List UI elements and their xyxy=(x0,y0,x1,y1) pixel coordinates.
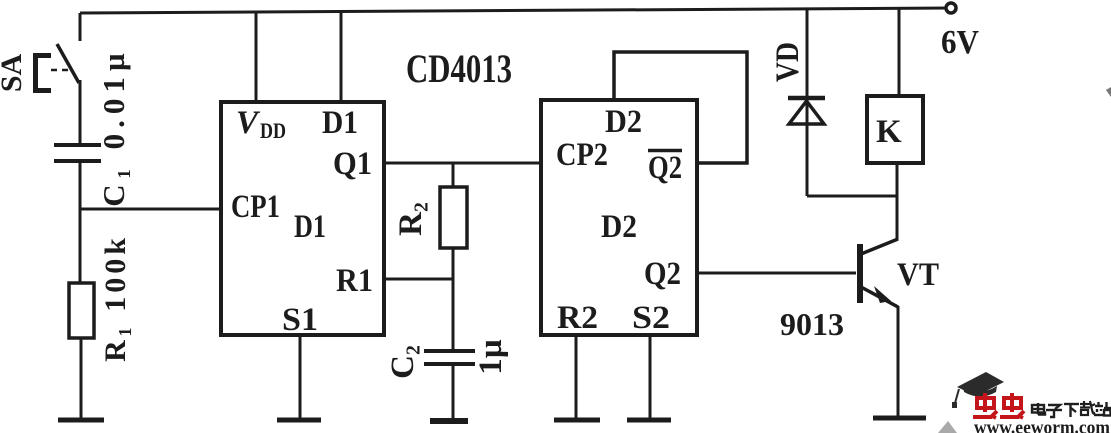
watermark red logo glyph 2 xyxy=(1000,393,1024,418)
wire top supply rail xyxy=(80,8,952,13)
pin label D2 (top) xyxy=(605,104,642,140)
pin label D1 (top) xyxy=(322,105,358,141)
svg-text:D2: D2 xyxy=(601,209,637,245)
svg-text:R₂: R₂ xyxy=(393,202,429,236)
ground (R1) xyxy=(58,418,104,423)
watermark text zi xyxy=(1046,405,1062,417)
pin label S2 xyxy=(632,300,670,336)
svg-text:www.eeworm.com: www.eeworm.com xyxy=(974,419,1111,433)
svg-text:DD: DD xyxy=(260,118,286,143)
wire Q2 to transistor base xyxy=(697,272,856,275)
label D2 (device) xyxy=(601,209,637,245)
watermark text dian xyxy=(1032,403,1045,415)
svg-text:Q1: Q1 xyxy=(333,146,372,182)
label D1 (device) xyxy=(294,209,326,245)
wire node to CP1 xyxy=(79,208,221,211)
svg-text:9013: 9013 xyxy=(780,306,844,342)
wire D1 pin drop xyxy=(340,11,343,103)
wire C1 to R1 xyxy=(79,161,82,283)
watermark text xia xyxy=(1064,404,1079,417)
capacitor C1 xyxy=(54,47,131,207)
pin label VDD xyxy=(236,105,286,143)
ground (R2 pin) xyxy=(554,418,600,423)
ground (emitter) xyxy=(873,416,926,421)
wire K drop from rail xyxy=(898,8,901,96)
transistor VT 9013 xyxy=(780,239,939,342)
switch SA xyxy=(0,44,79,92)
svg-text:1µ: 1µ xyxy=(473,339,509,375)
IC U2 D2 flip-flop box xyxy=(541,100,697,335)
wire C2 to ground xyxy=(452,364,455,420)
watermark text zhan xyxy=(1094,402,1111,416)
ground (C2) xyxy=(430,418,468,424)
wire S2 pin to ground xyxy=(649,335,652,419)
wire D2 to Q2-bar feedback loop xyxy=(614,52,747,163)
wire VD drop from rail xyxy=(806,9,809,196)
svg-text:C₁ 0.01µ: C₁ 0.01µ xyxy=(96,47,131,207)
svg-text:D1: D1 xyxy=(294,209,326,245)
watermark text zai xyxy=(1080,401,1096,415)
ground (S1) xyxy=(277,418,321,423)
watermark graduation cap xyxy=(952,372,1004,408)
svg-text:R1: R1 xyxy=(336,263,373,299)
wire Q1 to CP2 xyxy=(384,162,541,165)
ground (S2 pin) xyxy=(627,418,671,423)
wire VDD drop xyxy=(255,11,258,103)
watermark url xyxy=(974,419,1111,433)
svg-text:CP2: CP2 xyxy=(556,137,608,173)
svg-text:C₂: C₂ xyxy=(385,345,421,379)
wire VD-K bottom link xyxy=(807,195,897,198)
svg-text:R₁ 100k: R₁ 100k xyxy=(99,234,132,362)
wire R1 pin to R2 node xyxy=(384,278,453,281)
svg-text:D2: D2 xyxy=(605,104,642,140)
wire emitter to ground xyxy=(897,306,900,417)
resistor R1 100k xyxy=(69,234,132,362)
pin label Q2-bar xyxy=(648,150,682,186)
svg-text:V: V xyxy=(236,105,261,141)
pin label Q2 xyxy=(644,256,681,292)
node 6V terminal xyxy=(941,3,979,61)
IC U1 D1 flip-flop box xyxy=(221,102,384,335)
wire S1 to ground xyxy=(299,335,302,419)
svg-text:S1: S1 xyxy=(282,302,318,338)
svg-text:R2: R2 xyxy=(557,300,598,336)
wire R1 to ground xyxy=(80,338,83,420)
svg-text:VD: VD xyxy=(770,42,806,82)
svg-text:S2: S2 xyxy=(632,300,670,336)
stray mark right edge xyxy=(1106,87,1111,97)
svg-text:CP1: CP1 xyxy=(231,189,280,225)
label CD4013 xyxy=(406,46,512,91)
wire switch stub from rail xyxy=(79,13,82,41)
pin label Q1 xyxy=(333,146,372,182)
svg-text:CD4013: CD4013 xyxy=(406,46,512,91)
svg-text:SA: SA xyxy=(0,53,28,92)
svg-text:VT: VT xyxy=(897,257,939,293)
watermark grey wedge xyxy=(938,421,957,433)
resistor R2 xyxy=(393,187,467,248)
watermark red logo glyph 1 xyxy=(973,393,997,418)
svg-text:6V: 6V xyxy=(941,24,979,61)
pin label S1 xyxy=(282,302,318,338)
wire R2 pin to ground xyxy=(575,335,578,419)
wire K to collector xyxy=(896,163,899,240)
relay K xyxy=(867,96,923,163)
svg-text:D1: D1 xyxy=(322,105,358,141)
wire switch to C1 xyxy=(79,80,82,144)
wire Q1 node to R2 xyxy=(452,163,455,187)
pin label R1 xyxy=(336,263,373,299)
pin label CP1 xyxy=(231,189,280,225)
pin label CP2 xyxy=(556,137,608,173)
wire R2 to C2 xyxy=(452,248,455,351)
svg-text:Q2: Q2 xyxy=(644,256,681,292)
svg-text:Q2: Q2 xyxy=(648,150,682,186)
svg-text:K: K xyxy=(876,114,902,150)
pin label R2 xyxy=(557,300,598,336)
capacitor C2 1u xyxy=(385,339,509,379)
diode VD xyxy=(770,42,825,124)
